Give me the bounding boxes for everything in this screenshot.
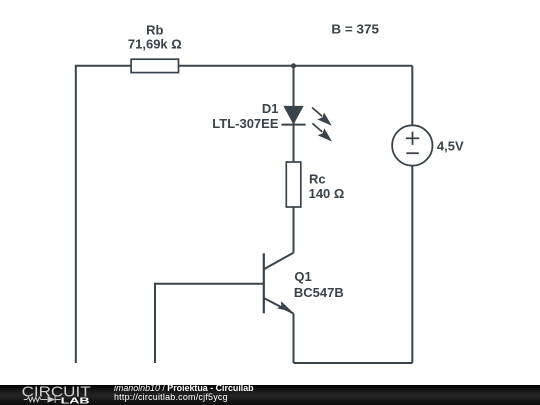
wire right rail: top corner down to battery, battery to bottom-right corner (411, 66, 413, 363)
svg-text:Rc: Rc (309, 172, 326, 187)
svg-text:D1: D1 (262, 101, 279, 116)
transistor Q1 base bar (263, 253, 265, 313)
wire bottom: emitter to bottom-right corner (294, 362, 413, 364)
CircuitLab logo (0, 385, 110, 405)
svg-text:Rb: Rb (146, 22, 163, 37)
LED D1 cathode bar (282, 124, 306, 126)
wire LED branch: junction down through D1, Rc, to collector (293, 66, 295, 253)
transistor Q1 collector stroke (264, 253, 294, 270)
svg-text:Q1: Q1 (294, 269, 311, 284)
node junction at top of LED branch (291, 63, 296, 68)
wire top: from Rb right terminal to top-right corner (179, 65, 413, 67)
footer bar (0, 385, 540, 405)
wire emitter vertical (293, 314, 295, 364)
wire top-left: from Rb left terminal to left rail corner (76, 66, 131, 363)
resistor Rb (131, 59, 178, 72)
svg-text:LAB: LAB (61, 395, 90, 405)
resistor Rc (286, 162, 301, 207)
svg-text:B = 375: B = 375 (331, 22, 379, 37)
svg-text:140 Ω: 140 Ω (309, 186, 345, 201)
LED D1 emission arrow 2 (312, 123, 332, 141)
svg-text:71,69k Ω: 71,69k Ω (128, 36, 182, 51)
LED D1 emission arrow 1 (312, 108, 332, 126)
LED D1 triangle (283, 106, 303, 125)
svg-text:BC547B: BC547B (294, 285, 344, 300)
voltage source minus sign (406, 152, 419, 154)
voltage source plus sign (406, 132, 419, 145)
svg-text:LTL-307EE: LTL-307EE (212, 116, 279, 131)
svg-text:4,5V: 4,5V (437, 138, 464, 153)
footer text (114, 384, 254, 402)
wire base: from Q1 base left then down (155, 284, 264, 363)
transistor Q1 emitter stroke with arrow (264, 298, 294, 314)
voltage source V1 body (392, 125, 432, 165)
